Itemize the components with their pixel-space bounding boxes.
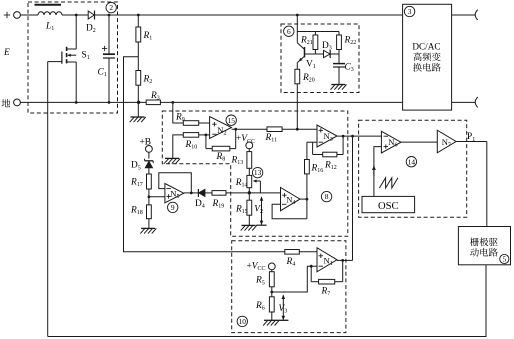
wire node to N4 plus	[249, 192, 280, 194]
svg-text:15: 15	[228, 116, 236, 125]
wire S1 gate down to bottom rail	[47, 62, 49, 337]
voltage arrow V3	[279, 295, 288, 321]
MOSFET S1	[48, 15, 90, 102]
resistor R18	[130, 205, 151, 219]
wire R18 to ground	[148, 219, 150, 229]
resistor R1	[136, 15, 152, 42]
wire R5 to R6	[271, 287, 273, 297]
node R2 bottom junction	[137, 101, 140, 104]
node N5 feedback junction	[190, 192, 193, 195]
label E (source)	[3, 48, 10, 58]
node R9 tap junction	[171, 101, 174, 104]
node circuit6 feed junction	[296, 14, 299, 17]
feedback resistor R8	[206, 129, 236, 162]
wire R13 to R14	[248, 168, 250, 175]
wire N2 output to R11	[232, 128, 268, 130]
resistor R5	[255, 270, 274, 287]
comparator N6	[381, 131, 401, 153]
wire D5 to R17	[148, 168, 150, 174]
op-amp N1	[317, 248, 337, 272]
label 2 circled	[106, 2, 116, 12]
diode D4	[195, 189, 212, 210]
wire junction to ground	[137, 102, 139, 116]
node R1 top junction	[137, 14, 140, 17]
op-amp N4	[281, 188, 301, 211]
wire N1 minus to divider	[272, 266, 317, 292]
wire R15 to ground	[248, 215, 250, 225]
node divider junction	[148, 195, 151, 198]
wire D3 to R22 node	[330, 53, 339, 55]
resistor R2	[136, 71, 152, 86]
svg-text:OSC: OSC	[378, 201, 399, 212]
capacitor C1	[98, 15, 116, 102]
terminal +Vcc section13	[236, 134, 255, 149]
node V2 junction	[248, 191, 251, 194]
svg-text:14: 14	[408, 157, 416, 166]
sawtooth waveform	[379, 178, 398, 188]
zener diode D5	[131, 159, 153, 172]
label 14 circled	[406, 157, 416, 167]
wire R10 to N2 minus	[199, 134, 210, 136]
ground below R10	[164, 158, 180, 163]
wire N5 output to D4	[184, 192, 199, 194]
wire V1 base bus	[305, 53, 324, 55]
diode D2	[86, 11, 96, 35]
voltage arrow V2	[254, 196, 266, 225]
op-amp N3	[317, 125, 337, 147]
resistor R9	[175, 113, 199, 126]
node R7 minus junction	[310, 265, 313, 268]
node drain junction	[75, 14, 78, 17]
node R8 output junction	[234, 128, 237, 131]
resistor R13	[231, 149, 252, 169]
wire R1 to R2	[137, 42, 139, 71]
resistor R11	[265, 127, 283, 144]
wire R6 to ground	[271, 312, 273, 320]
feedback wire N4	[272, 204, 307, 218]
node N4 output junction	[306, 198, 309, 201]
wiper arrow R14	[253, 179, 261, 192]
wire DC/AC output top	[452, 10, 478, 20]
wire N4 output to R16 line	[300, 198, 307, 200]
svg-text:2: 2	[109, 3, 113, 12]
wire divider tap to R4 line	[124, 57, 285, 252]
node S1 source junction	[75, 101, 78, 104]
op-amp N2	[210, 117, 232, 139]
resistor R15	[235, 200, 252, 215]
svg-text:13: 13	[254, 168, 262, 177]
label 15 circled	[226, 115, 236, 125]
svg-text:DC/AC: DC/AC	[412, 42, 440, 52]
svg-text:3: 3	[408, 7, 412, 16]
wire DC/AC output bottom	[452, 97, 478, 107]
wire R2 to ground rail	[137, 85, 139, 102]
node N1 branch junction	[351, 135, 354, 138]
node C1 top junction	[108, 14, 111, 17]
potentiometer R14	[235, 175, 252, 188]
wire N3 minus node	[307, 142, 317, 159]
feedback wire N5	[159, 173, 192, 193]
node R8 minus junction	[205, 134, 208, 137]
svg-text:6: 6	[287, 27, 291, 36]
wire N3 output to N6	[337, 135, 381, 137]
dashed box section 6	[281, 24, 359, 93]
resistor R19	[212, 191, 227, 210]
wire OSC to N6 plus	[374, 147, 382, 197]
node C1 bottom junction	[108, 101, 111, 104]
wire R11 to N3 plus	[282, 128, 317, 130]
feedback resistor R7	[311, 260, 343, 297]
block 3 DC/AC converter	[403, 4, 452, 110]
resistor R20	[295, 69, 315, 84]
wire divider to N5 plus	[149, 196, 165, 198]
resistor R16	[305, 160, 324, 175]
resistor R17	[130, 174, 151, 189]
wire + terminal to L1	[20, 14, 38, 16]
block 5 gate driver	[458, 227, 510, 265]
wire R20 down to N3 input node	[296, 84, 298, 130]
ground below R18	[140, 228, 156, 233]
svg-text:5: 5	[502, 255, 506, 264]
wire R4 to N1 plus	[299, 251, 317, 253]
ground below C3	[331, 85, 347, 90]
dashed box section 10	[232, 241, 346, 333]
dashed box section 14	[359, 120, 467, 217]
node R20 line junction	[296, 128, 299, 131]
wire R14 to node	[248, 188, 250, 201]
svg-text:9: 9	[171, 203, 175, 212]
wire +B to D5	[148, 152, 150, 158]
resistor R10	[183, 133, 198, 151]
label 10 circled	[237, 316, 247, 326]
ground rail	[20, 101, 402, 103]
wire N7 output to P1	[456, 141, 487, 143]
wire N6 to N7	[401, 141, 437, 143]
transistor V1	[297, 43, 315, 70]
inductor L1	[35, 5, 63, 32]
svg-text:E: E	[3, 48, 10, 58]
terminal +Vcc section10	[247, 261, 276, 272]
wire ground rail to R9	[173, 102, 184, 123]
wire R9 to N2 plus	[199, 122, 210, 124]
wire P1 down to gate driver	[486, 142, 488, 227]
diode D3	[322, 41, 332, 58]
resistor R3	[146, 91, 160, 105]
svg-text:10: 10	[239, 317, 247, 326]
node R7 output junction	[341, 259, 344, 262]
terminal +B	[140, 138, 153, 153]
wire R10 left to ground	[173, 135, 184, 158]
ground below R2	[130, 117, 146, 122]
node R12 output junction	[342, 135, 345, 138]
label 9 circled	[168, 202, 178, 212]
wire rail into section 6	[296, 15, 298, 43]
wire N1 output	[337, 259, 353, 261]
resistor R21	[300, 32, 318, 55]
feedback resistor R12	[313, 136, 344, 171]
label 8 circled	[321, 191, 331, 201]
dashed box sections 15-13-8	[162, 111, 347, 236]
node R5 R6 junction	[270, 291, 273, 294]
ground below R15	[241, 225, 257, 230]
oscillator OSC block	[362, 196, 415, 212]
capacitor C3	[333, 54, 354, 84]
buffer N7	[437, 130, 456, 153]
wire section6 top bus	[297, 31, 339, 33]
wire top rail D2 to DC/AC box	[95, 14, 403, 16]
wire R16 to N4 output	[306, 174, 308, 219]
wire R19 to V2 node	[226, 192, 249, 194]
dashed box section 2	[28, 2, 118, 113]
svg-text:8: 8	[325, 192, 329, 201]
wire L1 to D2	[62, 14, 88, 16]
resistor R4	[285, 250, 300, 268]
resistor R6	[255, 297, 274, 312]
label 6 circled	[284, 26, 294, 36]
label 13 circled	[252, 167, 262, 177]
ground below R6	[263, 320, 288, 325]
wire shared output down to N1	[352, 136, 354, 260]
wire R17 to R18	[148, 189, 150, 205]
terminal 地 (ground input)	[2, 99, 21, 107]
terminal + (positive input)	[4, 12, 21, 19]
label P1	[467, 132, 475, 143]
op-amp N5	[165, 184, 184, 203]
wire gate driver output to S1 gate	[48, 265, 486, 337]
resistor R22	[337, 32, 357, 55]
ramp arrow	[372, 165, 376, 176]
